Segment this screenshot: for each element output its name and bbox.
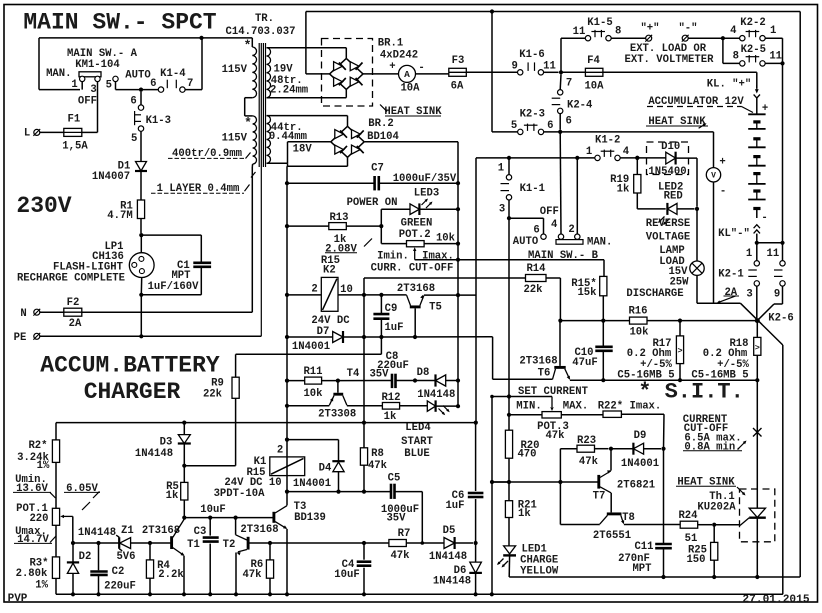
annotation 6.05V [64,483,100,498]
svg-text:6A: 6A [451,81,464,93]
junction [474,421,478,425]
junction [336,490,340,494]
plus [389,61,395,73]
wire [697,302,741,304]
value 10uF [200,504,225,516]
wire [475,423,477,491]
junction [456,404,460,408]
potentiometer POT.1 [52,508,59,525]
svg-text:K1-5: K1-5 [587,17,612,29]
wire [544,71,559,73]
junction [285,335,289,339]
wire [141,234,201,236]
resistor R3* [52,557,59,579]
wire [647,320,757,322]
wire [287,163,289,166]
wire [40,311,64,313]
svg-text:470: 470 [517,448,536,460]
wire [209,518,211,536]
value 1N4001 [292,341,330,353]
svg-text:2T3168: 2T3168 [397,283,435,295]
svg-text:0.8A min.: 0.8A min. [684,442,741,454]
wire [183,444,185,466]
svg-text:R2*: R2* [28,440,47,452]
value 1k [617,184,630,196]
value BD104 [367,131,399,143]
label R15* [571,278,596,290]
relay coil K1 [270,457,305,476]
wire [602,351,604,380]
value 35V [386,512,406,524]
label DISCHARGE [626,288,683,300]
label R22* Imax. [598,400,662,412]
svg-text:K1-1: K1-1 [520,183,545,195]
label EXT. VOLTMETER [624,54,714,66]
label R20 [520,440,539,452]
wire [559,482,561,525]
wire [466,71,517,73]
wire [347,405,383,407]
relay contact K2-2 [740,30,766,41]
svg-text:Imax.: Imax. [422,250,454,262]
pin 5 [106,80,112,92]
svg-text:>: > [755,343,760,353]
svg-text:*: * [244,116,252,131]
svg-text:T5: T5 [429,302,442,314]
label LED4 [405,422,431,434]
pin 10 [340,284,353,296]
wire [508,482,510,501]
junction [362,421,366,425]
wire [559,114,561,130]
wire [183,423,185,435]
wire shield to PE [260,167,262,336]
wire [267,97,347,99]
wire [677,208,695,210]
resistor R16 [630,317,648,324]
wire [603,260,605,277]
svg-text:8: 8 [615,26,621,38]
svg-text:7: 7 [566,78,572,90]
label K2-1 [718,268,743,280]
svg-text:6: 6 [547,120,553,132]
label CUT-OFF [684,423,729,435]
resistor R1 [137,200,144,219]
svg-text:C5-16MB 5: C5-16MB 5 [617,369,674,381]
wire [306,73,330,75]
label AUTO [513,236,538,248]
label F1 [68,113,81,125]
junction [721,36,725,40]
svg-text:C7: C7 [371,163,384,175]
pin 1 [71,79,77,91]
wire [696,158,698,207]
junction [755,318,760,323]
svg-text:25W: 25W [669,277,689,289]
svg-text:47k: 47k [545,430,565,442]
wire [756,243,758,261]
resistor R25 [711,542,718,560]
label BR.1 [378,37,403,49]
svg-text:C5: C5 [388,473,401,485]
pin 7 [566,78,572,90]
svg-text:PE: PE [14,332,27,344]
svg-text:2T6821: 2T6821 [617,479,655,491]
svg-text:47k: 47k [390,550,410,562]
wire [559,132,562,234]
wire [509,576,800,578]
label D1 [118,161,131,173]
voltmeter V [706,168,720,182]
svg-text:D9: D9 [634,430,647,442]
resistor R19 [634,175,641,194]
wire [98,543,100,570]
junction [268,541,272,545]
value 10uF [334,569,359,581]
wire [543,218,545,234]
relay contact K2-5 [740,55,766,66]
junction [678,319,682,323]
LED LED4 [427,400,449,415]
value +/-5% [717,359,749,371]
wire [713,525,715,543]
label K1-1 [520,183,545,195]
wire [611,37,645,39]
thyristor Th.1 [740,508,766,525]
wire [363,278,365,448]
resistor R6 [266,560,273,578]
svg-text:6: 6 [533,225,539,237]
junction [139,293,143,297]
wire [287,165,348,167]
wire [235,518,237,535]
wire [508,158,510,175]
wire pot3 wiper [550,397,553,412]
svg-text:1N4001: 1N4001 [621,458,659,470]
label K2 [323,265,336,277]
heatsink outline Th.1 [740,489,775,542]
value 44tr. [271,122,303,134]
label R25 [688,545,707,557]
relay contact K2-1 right [774,261,785,287]
junction [559,70,563,74]
junction [362,541,366,545]
wire [251,38,253,47]
value 47k [368,460,388,472]
wire [415,380,436,382]
junction [234,592,238,596]
svg-text:YELLOW: YELLOW [520,565,559,577]
junction [148,592,152,596]
wire [756,355,758,380]
wire [713,182,715,303]
svg-text:47k: 47k [579,456,599,468]
svg-text:KM1-104: KM1-104 [75,59,120,71]
svg-text:10: 10 [340,284,353,296]
value 2.24mm [270,85,308,97]
svg-text:6: 6 [130,95,136,107]
wire [235,398,237,465]
transistor T7 [599,470,611,493]
resistor R23 [577,445,595,452]
wire [713,560,715,577]
annotation dashes [647,107,753,113]
wire [82,131,98,133]
wire [72,516,74,541]
pin 2 [277,445,283,457]
svg-text:KL. "+": KL. "+" [707,79,752,91]
label START [401,436,433,448]
capacitor C1 [193,263,211,267]
svg-text:K1-6: K1-6 [519,49,544,61]
label FLASH-LIGHT [53,262,124,274]
wire [245,98,253,116]
junction [661,447,665,451]
wire [509,414,542,416]
svg-text:10uF: 10uF [200,504,225,516]
junction [575,156,579,160]
label C8 [386,351,399,363]
wire [644,448,661,450]
wire [698,524,712,526]
capacitor C11 [655,544,672,548]
label F2 [67,297,80,309]
svg-text:R7: R7 [398,528,411,540]
junction [601,378,605,382]
transformer core [259,43,265,167]
wire [286,529,288,594]
transformer primary winding lower 115V [253,116,257,164]
resistor R21 [505,501,512,518]
wire [140,278,142,295]
junction [490,9,494,13]
label T2 [223,539,236,551]
wire [306,11,800,13]
label POT.3 [537,421,569,433]
wire [363,73,399,75]
label R11 [303,366,322,378]
label K1-2 [595,135,620,147]
label T4 [347,368,360,380]
junction [507,156,511,160]
svg-text:BR.2: BR.2 [368,118,393,130]
svg-text:1uF: 1uF [384,322,403,334]
wire [602,321,604,347]
value 4.7M [107,210,132,222]
value 1,5A [62,140,88,152]
junction [379,293,383,297]
wire [782,345,784,594]
svg-text:15k: 15k [577,287,597,299]
pin 9 [774,289,780,301]
svg-text:2: 2 [277,445,283,457]
label T5 [429,302,442,314]
svg-text:19V: 19V [274,64,294,76]
junction [558,480,562,484]
pin 11 [543,60,556,72]
svg-text:TR.: TR. [255,13,274,25]
label K2-5 [741,44,766,56]
wire [561,71,585,73]
label PE [14,332,27,344]
wire [475,158,477,423]
wire [406,542,422,544]
junction [712,523,716,527]
svg-text:10A: 10A [584,81,604,93]
wire [560,320,629,322]
relay contact K1-4 [158,80,185,93]
wire [663,449,665,544]
heatsink outline BR.1 [322,39,373,107]
wire [723,62,740,64]
label MAN. [46,68,71,80]
svg-text:1k: 1k [384,411,397,423]
value 1k [166,490,179,502]
value 35V [369,368,389,380]
label 115V [222,64,248,76]
svg-text:5: 5 [511,120,517,132]
svg-text:2.80k: 2.80k [16,568,48,580]
pin 9 [512,60,518,72]
wire [185,89,202,91]
wire [141,294,201,296]
pin 6 [566,116,572,128]
svg-text:Imin.: Imin. [377,250,409,262]
label LED1 [521,544,546,556]
label LED2 [658,182,683,194]
wire [559,278,561,321]
label T7 [593,491,606,503]
label R7 [398,528,411,540]
pin 6 [150,78,156,90]
wire [249,542,270,544]
label R16 [628,305,647,317]
svg-text:MAX.: MAX. [563,400,588,412]
diode D1 [135,162,147,172]
wire [492,337,494,380]
annotation HEAT SINK [646,116,708,128]
wire [235,354,237,377]
wire [235,553,237,595]
junction [780,241,784,245]
svg-text:5V6: 5V6 [116,551,135,563]
polarity mark [244,116,252,131]
value 1N4001 [621,458,659,470]
label POT.2 [399,229,431,241]
wire pot2 wiper [413,247,416,260]
wire [40,131,64,133]
label 2T6821 [617,479,655,491]
junction [336,379,340,383]
annotation check arrow [738,441,747,450]
label CHARGE [520,555,558,567]
capacitor C8 [392,374,396,388]
wire [183,466,185,483]
capacitor C6 [468,493,484,497]
wire [491,397,493,595]
pin 6 [130,95,136,107]
label R15 [246,467,265,479]
label D4 [319,462,332,474]
svg-text:4.7M: 4.7M [107,210,132,222]
value 0.44mm [269,131,307,143]
wire K2-6 [741,303,783,345]
relay contact K2-3 [518,124,544,135]
annotation 1 LAYER 0.4mm [151,183,250,195]
wire [149,543,151,560]
capacitor C7 [375,176,379,190]
junction [490,395,494,399]
relay contact K1-5 [585,30,611,41]
junction [755,378,759,382]
wire [679,364,681,381]
ammeter [399,65,416,82]
pin 1 [746,248,752,260]
wire [476,157,595,159]
svg-text:0.44mm: 0.44mm [269,131,307,143]
junction [139,88,143,92]
value 2.2k [158,569,184,581]
wire [492,131,518,133]
label R18 [729,338,748,350]
svg-text:220: 220 [29,513,48,525]
svg-text:T1: T1 [187,539,200,551]
wire [269,578,271,594]
svg-text:R16: R16 [628,305,647,317]
label OFF [78,95,97,107]
value 10k [303,388,323,400]
capacitor C3 [203,538,219,542]
title ACCUM.BATTERY [40,352,220,378]
svg-text:6: 6 [150,78,156,90]
resistor R4 [146,560,153,578]
svg-text:A: A [404,69,410,80]
wire [56,593,783,595]
value 3PDT-10A [214,488,266,500]
wire [595,448,609,450]
wire [286,166,288,457]
svg-text:11: 11 [767,248,780,260]
junction [208,592,212,596]
label GREEN [401,218,433,230]
label S.I.T. [638,380,744,405]
wire [269,543,271,560]
label T1 [187,539,200,551]
label MAN. [587,237,612,249]
svg-text:+: + [762,103,768,115]
wire [624,524,680,526]
switch KM1 MAN contact bar [79,72,101,82]
wire [267,115,348,117]
wire [286,457,288,476]
wire [55,462,57,508]
svg-text:1%: 1% [37,460,50,472]
pin 6 [547,120,553,132]
bridge rectifier BR.2 [331,126,364,157]
minus [418,62,424,74]
wire [236,353,382,355]
svg-text:AUTO: AUTO [125,70,150,82]
label CURRENT [683,414,728,426]
resistor R7 [389,540,406,547]
label K2-2 [740,17,765,29]
wire [347,116,349,127]
junction [362,490,366,494]
svg-text:C2: C2 [112,566,125,578]
pin 4 [551,219,558,231]
junction [96,541,100,545]
svg-text:2.08V: 2.08V [325,244,357,256]
